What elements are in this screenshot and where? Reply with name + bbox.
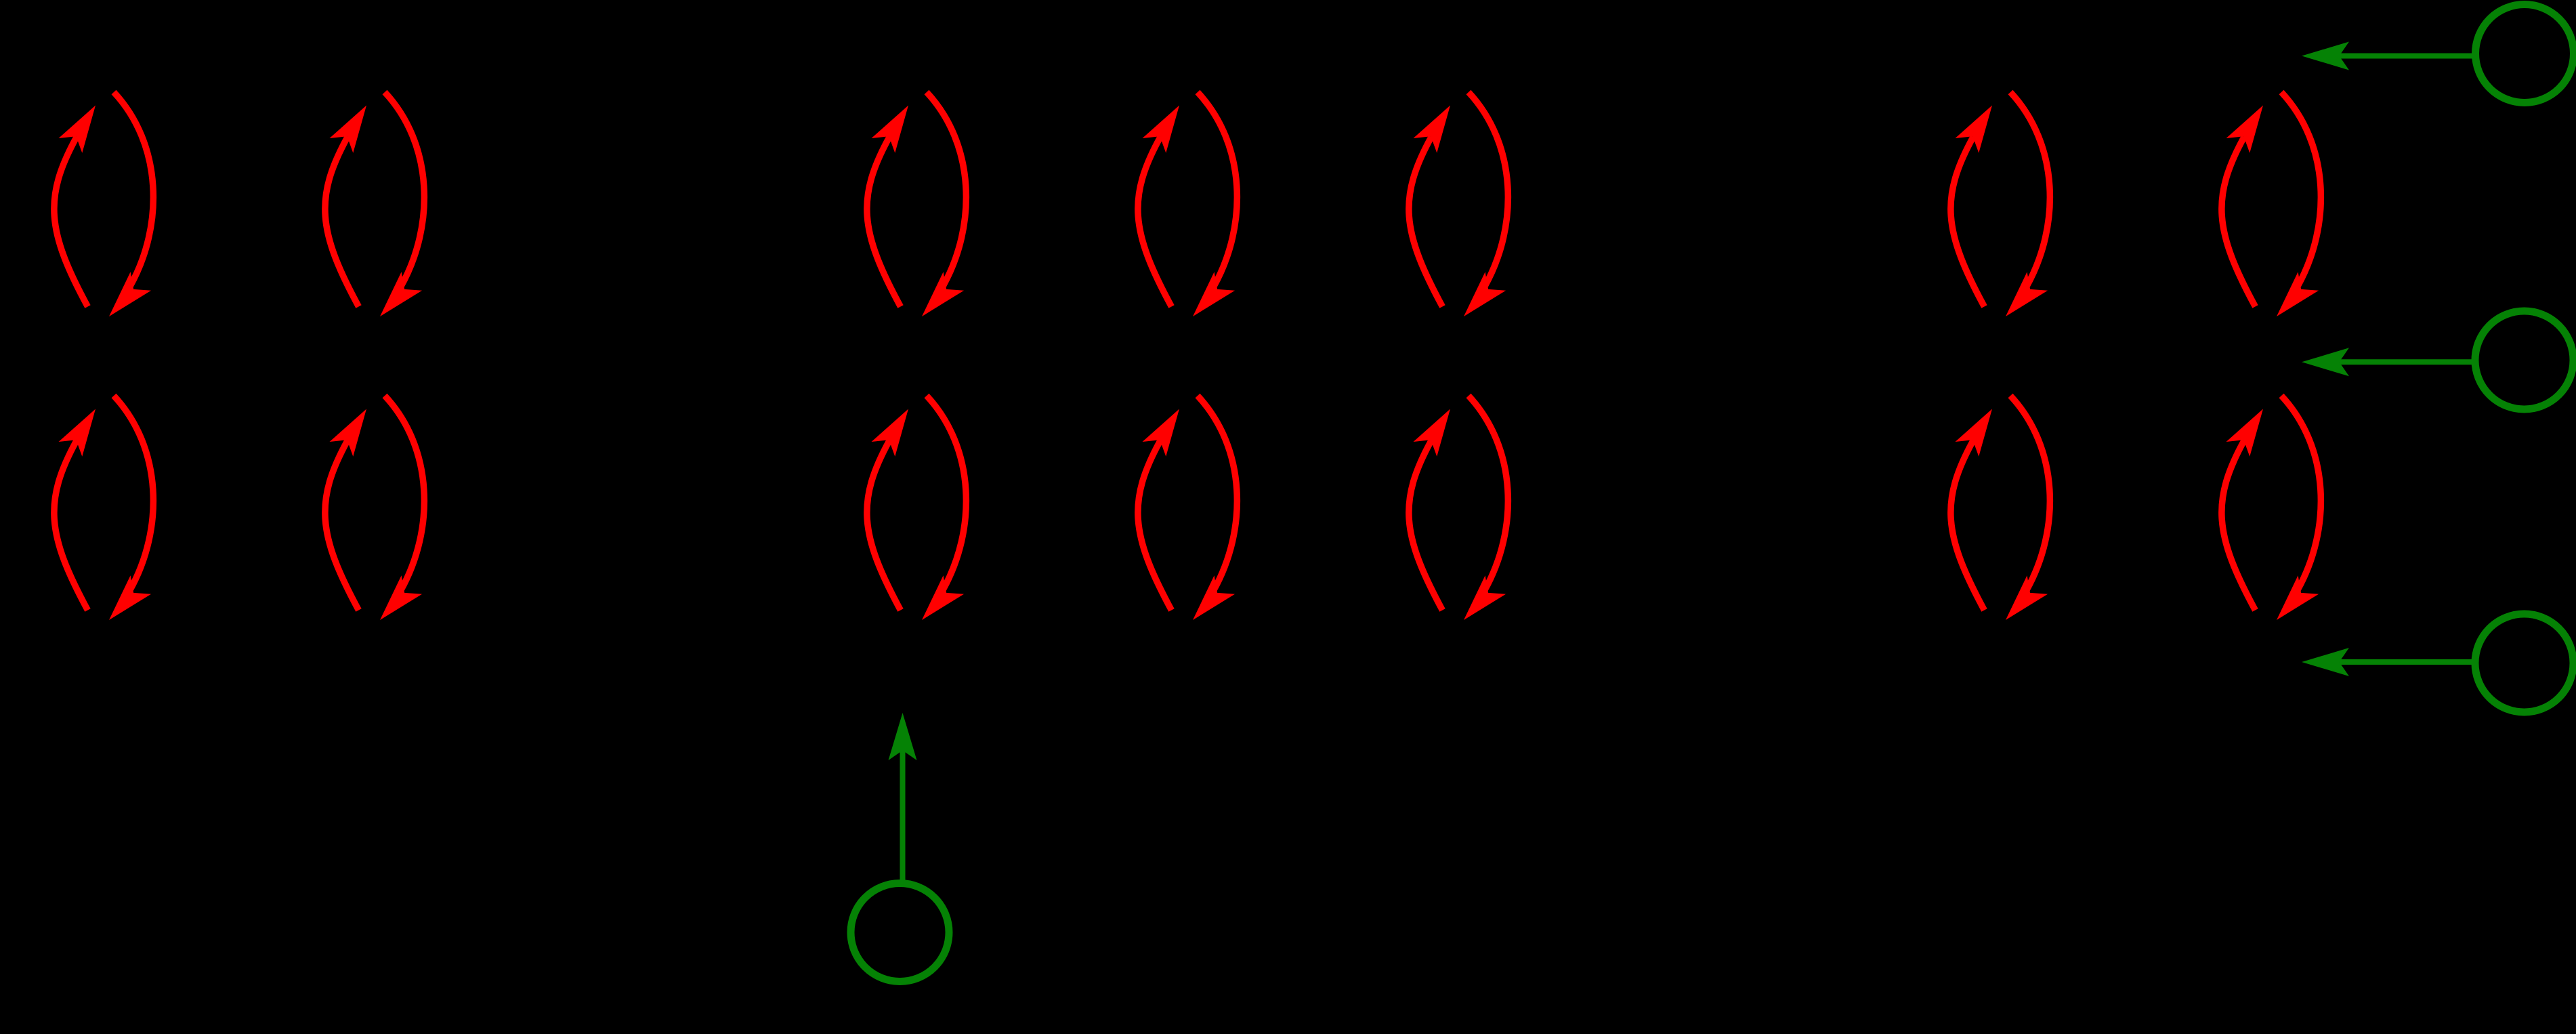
exchange arrows pair row2 col1	[54, 396, 153, 629]
green circle label 3 (bottom right)	[2475, 614, 2573, 712]
exchange arrows pair row1 col4	[1138, 92, 1237, 326]
exchange arrows pair row1 col5	[1409, 92, 1508, 326]
green arrow 3 (bottom right, pointing left)	[2302, 648, 2476, 676]
green arrow 2 (middle right, pointing left)	[2302, 348, 2476, 376]
exchange arrows pair row2 col5	[1409, 396, 1508, 629]
exchange arrows pair row2 col2	[325, 396, 424, 629]
green arrow 4 (bottom middle, pointing up)	[889, 713, 917, 882]
exchange arrows pair row2 col4	[1138, 396, 1237, 629]
green circle label 1 (top right)	[2476, 5, 2574, 103]
exchange arrows pair row1 col2	[325, 92, 424, 326]
exchange arrows pair row2 col3	[867, 396, 966, 629]
green arrow 1 (top right, pointing left)	[2302, 42, 2476, 70]
exchange arrows pair row2 col6	[1951, 396, 2050, 629]
exchange arrows pair row1 col7	[2222, 92, 2321, 326]
exchange arrows pair row1 col1	[54, 92, 153, 326]
exchange arrows pair row2 col7	[2222, 396, 2321, 629]
green circle label 4 (bottom middle)	[851, 884, 949, 982]
green circle label 2 (middle right)	[2475, 311, 2573, 409]
exchange arrows pair row1 col6	[1951, 92, 2050, 326]
exchange arrows pair row1 col3	[867, 92, 966, 326]
